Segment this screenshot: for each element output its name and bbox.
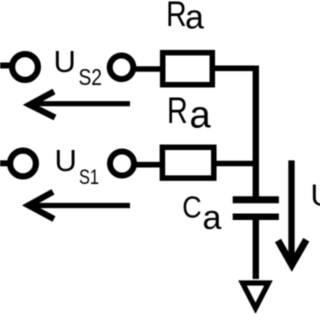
terminal circle U_S1 right: [110, 152, 134, 176]
svg-text:U: U: [54, 44, 76, 79]
wire: R_a (top) to node: [212, 66, 259, 72]
wire: U_S1 terminal to R_a (bottom): [135, 162, 163, 168]
svg-text:a: a: [185, 0, 204, 37]
wire: vertical bus from node to capacitor: [253, 66, 259, 197]
svg-text:R: R: [166, 0, 187, 34]
resistor R_a (bottom): [162, 147, 213, 178]
svg-text:S2: S2: [79, 64, 103, 90]
capacitor C_a: [233, 200, 279, 217]
terminal circle U_S1 left: [10, 151, 36, 177]
resistor R_a (top): [163, 53, 213, 85]
wire: left stub to U_S1 left terminal: [0, 160, 9, 166]
voltage arrow U (output, pointing down): [278, 160, 306, 264]
current arrow (top branch, pointing left): [30, 92, 131, 118]
svg-text:C: C: [182, 191, 201, 225]
svg-text:S1: S1: [79, 165, 99, 189]
wire: capacitor to ground: [253, 217, 259, 279]
svg-text:a: a: [203, 199, 222, 237]
wire: U_S2 terminal to R_a (top): [134, 66, 163, 72]
wire: R_a (bottom) to node: [214, 161, 259, 167]
svg-text:R: R: [167, 90, 188, 131]
terminal circle U_S2 right: [110, 56, 134, 80]
svg-text:U: U: [311, 178, 320, 213]
wire: left stub to U_S2 left terminal: [0, 63, 11, 69]
terminal circle U_S2 left: [12, 54, 38, 80]
current arrow (bottom branch, pointing left): [29, 192, 131, 219]
svg-text:U: U: [55, 143, 77, 178]
svg-text:a: a: [190, 95, 212, 137]
ground: [243, 283, 269, 308]
